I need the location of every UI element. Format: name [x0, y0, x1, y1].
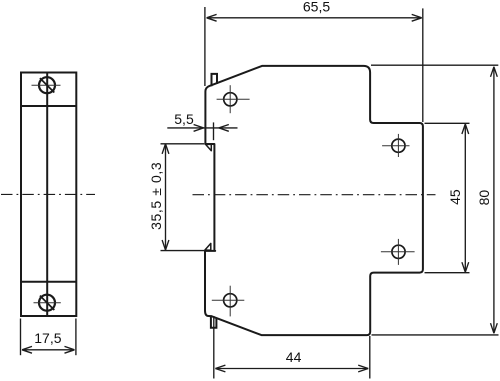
dimension 35,5 ± 0,3: [161, 144, 205, 251]
svg-text:65,5: 65,5: [303, 0, 330, 15]
front view bottom screw hole: [34, 295, 61, 311]
din rail top hook: [206, 144, 212, 150]
front view top screw hole: [32, 77, 61, 93]
din clip top tab: [212, 74, 218, 86]
svg-text:35,5 ± 0,3: 35,5 ± 0,3: [148, 162, 164, 230]
front view center seam line: [46, 73, 48, 317]
svg-text:5,5: 5,5: [174, 111, 194, 127]
side view hole top-left: [217, 85, 250, 113]
dimension 5,5: [167, 122, 237, 140]
dimension 65,5: [205, 7, 423, 122]
horizontal center line left: [1, 193, 95, 195]
dimension 17,5: [21, 319, 76, 356]
front view outline: [21, 73, 76, 317]
front view top inner line: [21, 105, 76, 107]
svg-text:17,5: 17,5: [34, 330, 61, 346]
dimension 80: [371, 65, 499, 335]
side view body outline: [205, 66, 423, 335]
svg-text:80: 80: [476, 190, 492, 206]
side view hole bottom-right: [381, 239, 415, 265]
side view hole bottom-left: [212, 286, 245, 317]
din clip bottom tab: [211, 316, 217, 327]
front view bottom inner line: [21, 281, 76, 283]
din rail bottom hook: [205, 243, 211, 250]
svg-text:44: 44: [286, 349, 302, 365]
dimension 45: [425, 123, 470, 272]
svg-text:45: 45: [447, 189, 463, 205]
side view hole top-right: [382, 134, 409, 157]
horizontal center line right: [193, 194, 436, 196]
dimension 44: [214, 316, 370, 379]
